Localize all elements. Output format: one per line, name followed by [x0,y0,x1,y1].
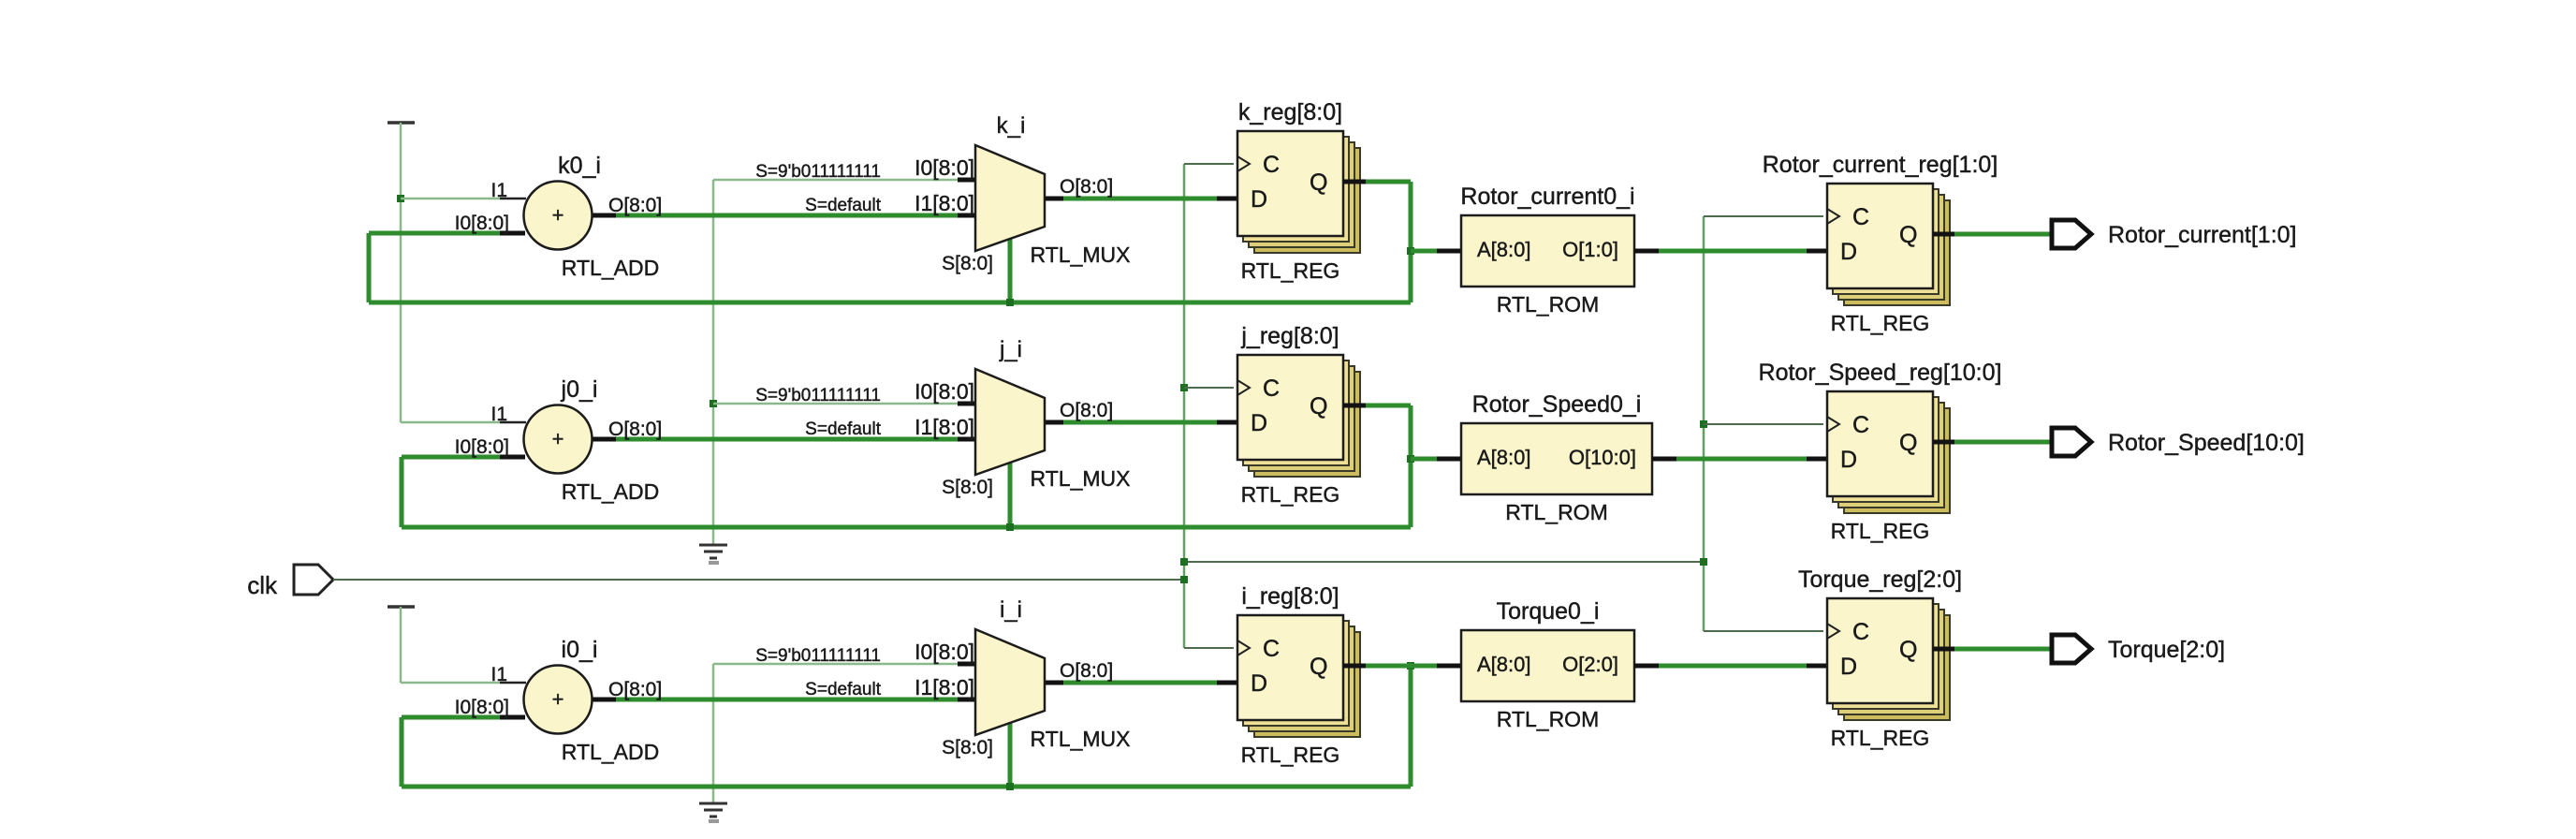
wire j_i O to j_reg D [1045,420,1063,425]
wire const net vertical to ground (rows 1-2) [712,180,715,544]
wire Rotor_current_reg[1:0] Q to output port [1933,232,1954,237]
svg-text:C: C [1852,204,1869,230]
svg-text:RTL_REG: RTL_REG [1241,258,1340,283]
svg-text:C: C [1852,619,1869,645]
junction k_i S / feedback [1006,299,1014,306]
wire clk to Torque_reg[2:0] C [1704,630,1823,632]
svg-text:I0[8:0]: I0[8:0] [915,640,974,664]
svg-text:S=9'b011111111: S=9'b011111111 [755,386,881,405]
junction right vertical / Rotor_Speed_reg C [1700,420,1707,428]
svg-text:I0[8:0]: I0[8:0] [455,436,509,458]
svg-text:Q: Q [1899,430,1917,456]
svg-text:S[8:0]: S[8:0] [942,737,993,758]
svg-text:O[8:0]: O[8:0] [1060,176,1113,198]
wire const vertical from T row 3 [400,607,402,683]
wire j_reg Q feedback loop [1366,404,1411,408]
svg-text:O[8:0]: O[8:0] [608,195,662,216]
wire Torque0_i O to Torque_reg[2:0] D [1634,664,1659,669]
wire Rotor_current0_i O to Rotor_current_reg[1:0] D [1634,249,1659,254]
wire clk branch to output registers [1184,561,1704,563]
svg-text:I1: I1 [490,180,507,201]
svg-text:i0_i: i0_i [562,637,598,663]
output port Rotor_current[1:0] [2052,220,2091,248]
register Rotor_Speed_reg[10:0] RTL_REG [1759,360,2002,543]
svg-text:O[10:0]: O[10:0] [1569,446,1636,469]
wire clk right vertical [1703,216,1705,631]
svg-text:S=9'b011111111: S=9'b011111111 [755,162,881,182]
wire const net vertical to ground (row 3) [712,664,715,802]
svg-text:RTL_MUX: RTL_MUX [1031,466,1131,491]
wire k_i O to k_reg D [1045,197,1063,201]
input port clk [294,565,333,595]
svg-text:I1: I1 [490,404,507,425]
svg-text:I1[8:0]: I1[8:0] [915,415,974,439]
svg-text:Torque_reg[2:0]: Torque_reg[2:0] [1798,567,1962,593]
svg-text:Rotor_current_reg[1:0]: Rotor_current_reg[1:0] [1763,152,1998,178]
wire branch to Torque0_i A [1366,664,1437,669]
register Torque_reg[2:0] RTL_REG [1798,567,1962,750]
rom Torque0_i RTL_ROM [1461,598,1634,731]
junction const net / row2 mux I0 [710,400,717,407]
svg-text:A[8:0]: A[8:0] [1477,653,1530,676]
adder j0_i RTL_ADD [524,376,660,504]
svg-text:RTL_ROM: RTL_ROM [1497,292,1600,316]
svg-text:Q: Q [1899,222,1917,248]
svg-text:Rotor_Speed0_i: Rotor_Speed0_i [1472,391,1642,418]
svg-text:O[2:0]: O[2:0] [1562,653,1618,676]
svg-text:RTL_REG: RTL_REG [1831,519,1930,543]
svg-text:I0[8:0]: I0[8:0] [915,155,974,180]
junction right vertical / branch [1700,558,1707,566]
wire clk to i_reg C [1184,647,1234,649]
svg-text:Torque0_i: Torque0_i [1497,598,1600,625]
wire const to k_i I0 [713,179,958,182]
wire clk to k_reg C [1184,163,1234,165]
svg-text:D: D [1840,447,1857,473]
svg-text:RTL_REG: RTL_REG [1831,726,1930,750]
wire Torque_reg[2:0] Q to output port [1933,647,1954,652]
svg-text:RTL_MUX: RTL_MUX [1031,243,1131,267]
mux j_i RTL_MUX [755,337,1130,498]
svg-text:A[8:0]: A[8:0] [1477,238,1530,261]
junction const / k adder I1 [397,195,404,202]
wire branch to Rotor_current0_i A [1411,249,1437,254]
svg-text:I1[8:0]: I1[8:0] [915,675,974,699]
wire clk horizontal [333,579,1184,581]
register j_reg[8:0] RTL_REG [1237,323,1366,507]
svg-text:S[8:0]: S[8:0] [942,253,993,274]
register i_reg[8:0] RTL_REG [1237,583,1366,767]
junction i feedback / Torque0_i address branch [1407,662,1414,670]
constant driver T symbol (row 3) [388,605,415,609]
svg-text:D: D [1251,670,1267,697]
junction j_i S / feedback [1006,523,1014,531]
svg-text:O[8:0]: O[8:0] [1060,660,1113,682]
adder i0_i RTL_ADD [524,637,660,764]
wire const vertical from T [400,123,402,422]
wire i_i O to i_reg D [1045,681,1063,685]
svg-text:C: C [1263,375,1280,402]
svg-text:D: D [1840,239,1857,265]
svg-text:Q: Q [1310,169,1327,196]
wire branch to Rotor_Speed0_i A [1411,457,1437,462]
adder k0_i RTL_ADD [524,153,660,280]
register k_reg[8:0] RTL_REG [1237,99,1366,283]
svg-text:RTL_ADD: RTL_ADD [562,256,659,280]
svg-text:clk: clk [247,571,278,599]
wire i0_i O to i_i I1 [593,698,616,702]
junction i_i S / feedback [1006,783,1014,790]
svg-text:O[8:0]: O[8:0] [608,419,662,440]
svg-text:Rotor_current0_i: Rotor_current0_i [1460,184,1634,210]
svg-text:RTL_ADD: RTL_ADD [562,740,659,764]
ground (upper) [699,544,727,547]
svg-text:j_reg[8:0]: j_reg[8:0] [1240,323,1339,349]
rom Rotor_current0_i RTL_ROM [1460,184,1634,316]
wire const to i0_i I1 [401,682,500,684]
mux k_i RTL_MUX [755,113,1130,274]
svg-text:Rotor_current[1:0]: Rotor_current[1:0] [2108,222,2297,248]
svg-text:RTL_MUX: RTL_MUX [1031,727,1131,751]
wire i_i mux S select [1008,723,1013,787]
rom Rotor_Speed0_i RTL_ROM [1461,391,1652,524]
svg-text:I0[8:0]: I0[8:0] [455,213,509,234]
svg-text:Q: Q [1899,637,1917,663]
output port Rotor_Speed[10:0] [2052,428,2091,456]
wire j_i mux S select [1008,463,1013,527]
svg-text:Q: Q [1310,393,1327,419]
svg-text:Q: Q [1310,654,1327,680]
wire i_reg Q feedback loop [1366,664,1411,669]
constant driver T symbol (rows 1-2) [388,121,415,125]
wire clk to Rotor_Speed_reg[10:0] C [1704,423,1823,425]
svg-text:k_i: k_i [997,113,1026,139]
wire clk vertical trunk [1183,164,1186,648]
wire const to j0_i I1 [401,421,500,424]
svg-text:I0[8:0]: I0[8:0] [915,379,974,404]
junction j feedback / Rotor_Speed0_i address branch [1407,455,1414,463]
svg-text:+: + [552,203,564,227]
svg-text:I1: I1 [490,664,507,685]
svg-text:S=default: S=default [805,680,882,699]
svg-text:D: D [1251,186,1267,213]
svg-text:O[8:0]: O[8:0] [1060,400,1113,421]
svg-text:S[8:0]: S[8:0] [942,477,993,498]
svg-text:RTL_ADD: RTL_ADD [562,479,659,504]
svg-text:D: D [1251,410,1267,436]
svg-text:i_i: i_i [1000,597,1022,623]
svg-text:Rotor_Speed_reg[10:0]: Rotor_Speed_reg[10:0] [1759,360,2002,386]
svg-text:RTL_ROM: RTL_ROM [1505,500,1608,524]
svg-text:I0[8:0]: I0[8:0] [455,697,509,718]
svg-text:S=default: S=default [805,419,882,439]
wire const to i_i I0 [713,663,958,666]
svg-text:RTL_REG: RTL_REG [1241,743,1340,767]
junction k feedback / Rotor_current0_i address branch [1407,247,1414,255]
svg-text:A[8:0]: A[8:0] [1477,446,1530,469]
wire Rotor_Speed_reg[10:0] Q to output port [1933,440,1954,445]
svg-text:Torque[2:0]: Torque[2:0] [2108,637,2225,663]
svg-text:O[1:0]: O[1:0] [1562,238,1618,261]
output port Torque[2:0] [2052,635,2091,663]
svg-text:O[8:0]: O[8:0] [608,679,662,700]
wire Rotor_Speed0_i O to Rotor_Speed_reg[10:0] D [1652,457,1676,462]
svg-text:RTL_REG: RTL_REG [1241,482,1340,507]
svg-text:C: C [1263,636,1280,662]
register Rotor_current_reg[1:0] RTL_REG [1763,152,1998,335]
junction clk trunk / branch [1180,558,1188,566]
junction clk trunk / clk horizontal [1180,576,1188,583]
svg-text:S=default: S=default [805,196,882,215]
wire k0_i O to k_i I1 [593,213,616,218]
wire const to j_i I0 [713,403,958,405]
svg-text:j_i: j_i [999,337,1022,362]
svg-text:j0_i: j0_i [561,376,598,403]
svg-text:S=9'b011111111: S=9'b011111111 [755,646,881,666]
svg-text:C: C [1263,152,1280,178]
svg-text:k_reg[8:0]: k_reg[8:0] [1238,99,1342,125]
svg-text:Rotor_Speed[10:0]: Rotor_Speed[10:0] [2108,430,2305,456]
svg-text:+: + [552,687,564,711]
wire j0_i O to j_i I1 [593,437,616,442]
wire k_i mux S select [1008,239,1013,302]
junction clk trunk / j_reg C [1180,384,1188,391]
wire const to k0_i I1 [401,198,500,200]
svg-text:I1[8:0]: I1[8:0] [915,191,974,215]
svg-text:+: + [552,427,564,450]
wire clk to j_reg C [1184,387,1234,389]
svg-text:i_reg[8:0]: i_reg[8:0] [1241,583,1339,610]
svg-text:k0_i: k0_i [558,153,601,179]
wire clk to Rotor_current_reg[1:0] C [1704,215,1823,217]
mux i_i RTL_MUX [755,597,1130,758]
svg-text:C: C [1852,412,1869,438]
wire k_reg Q feedback loop [1366,180,1411,184]
svg-text:RTL_REG: RTL_REG [1831,311,1930,335]
svg-text:RTL_ROM: RTL_ROM [1497,707,1600,731]
svg-text:D: D [1840,654,1857,680]
ground (lower) [699,802,727,805]
